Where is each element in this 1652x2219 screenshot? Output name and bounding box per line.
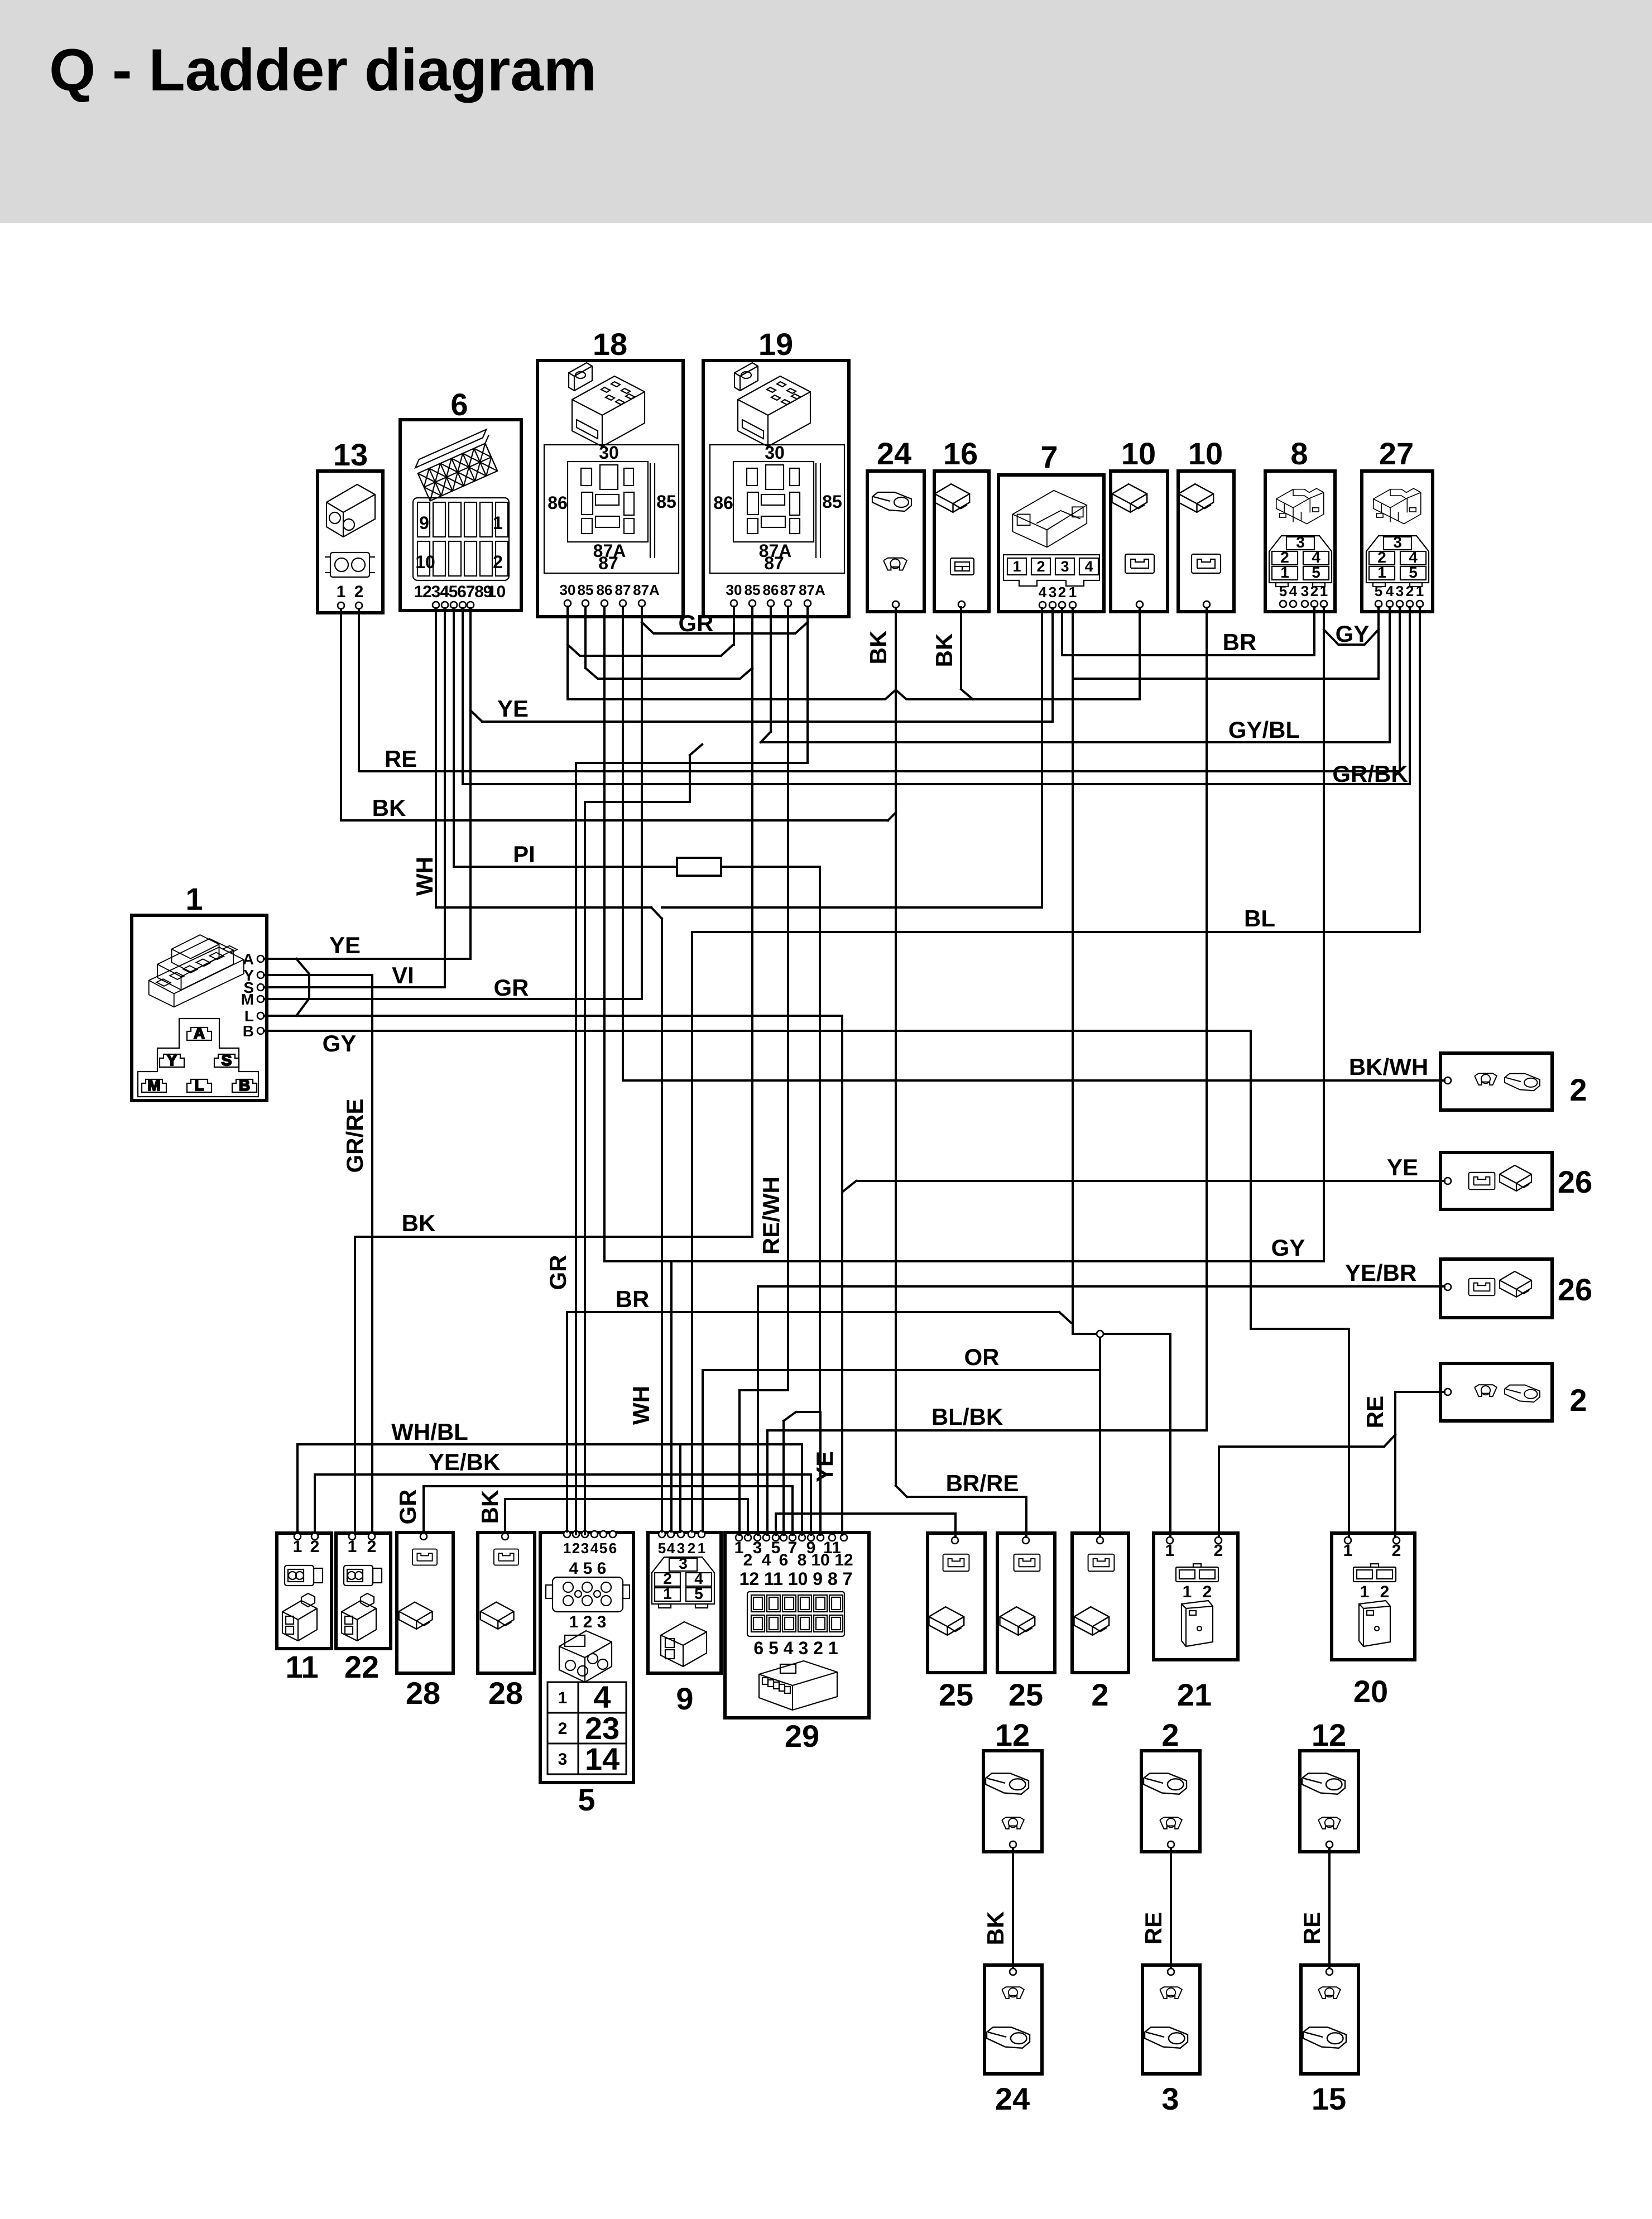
svg-text:GR/RE: GR/RE: [342, 1098, 368, 1173]
wire YE from 6-7: [469, 608, 472, 959]
svg-text:RE: RE: [1299, 1912, 1325, 1944]
wire BL/BK from 10 second: [1206, 608, 1208, 1430]
wire BK/WH horizontal: [623, 1079, 1444, 1082]
svg-text:GR: GR: [679, 610, 714, 636]
svg-text:4: 4: [1039, 584, 1047, 601]
svg-text:4: 4: [762, 1551, 771, 1569]
wire BK to 28 second: [504, 1499, 506, 1533]
svg-text:A: A: [194, 1025, 205, 1042]
svg-text:4: 4: [1386, 583, 1394, 599]
wire PI to 29-6: [782, 1421, 785, 1535]
svg-text:7: 7: [788, 1539, 798, 1557]
label YE: [497, 695, 529, 722]
svg-text:YE/BK: YE/BK: [429, 1449, 500, 1475]
terminal box 12 (chain): [983, 1717, 1042, 1852]
label BL/BK: [931, 1404, 1003, 1430]
wire YE/BK to 29-9: [810, 1474, 812, 1535]
svg-text:12 11 10 9 8 7: 12 11 10 9 8 7: [739, 1569, 853, 1589]
svg-text:2: 2: [1569, 1382, 1587, 1418]
label YE/BK: [429, 1449, 500, 1475]
svg-text:1: 1: [348, 1538, 357, 1556]
title: [49, 36, 597, 103]
wire branch to 5-3: [585, 801, 690, 803]
svg-text:BK: BK: [372, 795, 406, 821]
svg-text:L: L: [194, 1077, 204, 1094]
connector box 26 (YE/BR): [1440, 1259, 1592, 1318]
label GR/BK: [1332, 761, 1408, 787]
svg-text:GR: GR: [395, 1490, 421, 1525]
svg-text:1: 1: [1165, 1541, 1175, 1560]
svg-text:7: 7: [466, 583, 476, 601]
wire from 18-85: [584, 607, 587, 668]
label YE (rotated): [811, 1451, 838, 1482]
svg-text:2: 2: [743, 1551, 753, 1569]
svg-text:87: 87: [615, 582, 631, 598]
wire from 18-30: [566, 607, 569, 699]
svg-text:1: 1: [563, 1540, 571, 1557]
svg-text:GY: GY: [323, 1030, 357, 1056]
svg-text:2: 2: [354, 583, 364, 601]
svg-text:3: 3: [1049, 584, 1056, 601]
connector box 10 (first): [1111, 436, 1168, 612]
connector box 29: [725, 1533, 869, 1754]
svg-text:4: 4: [667, 1540, 675, 1557]
label GY: [1336, 621, 1370, 647]
wire PI from 6-5: [453, 608, 455, 867]
wire BK to 22-1: [354, 1237, 356, 1533]
wire GY bracket: [1324, 630, 1379, 645]
wire BL horizontal: [692, 931, 1420, 933]
wire RE branch horizontal: [1219, 1445, 1384, 1448]
svg-text:3: 3: [1296, 534, 1305, 551]
wire YE horizontal: [482, 721, 1053, 723]
wire from 1-L vertical to 29-12: [841, 1016, 843, 1535]
svg-text:30: 30: [765, 443, 785, 463]
svg-text:12: 12: [834, 1551, 853, 1569]
wire link to 7-4: [662, 906, 1042, 909]
wire YE jog from L vertical: [842, 1181, 856, 1192]
svg-text:1: 1: [293, 1538, 302, 1556]
terminal box 24 (chain): [985, 1965, 1042, 2116]
svg-text:YE/BR: YE/BR: [1345, 1260, 1416, 1286]
svg-text:9: 9: [419, 513, 429, 533]
wire GR/RE vertical to 22-2: [371, 975, 373, 1531]
connector box 8: [1265, 436, 1335, 612]
svg-text:5: 5: [1375, 583, 1382, 599]
wire BR/RE jog: [896, 1486, 907, 1497]
wire YE branch diagonal: [470, 710, 482, 722]
wire WH/BL to 11-1: [296, 1444, 299, 1533]
connector box 1: [132, 881, 267, 1101]
wire RE from 13-2: [358, 609, 360, 771]
svg-text:5: 5: [1279, 583, 1287, 599]
wire RE from box 2: [1395, 1391, 1444, 1393]
svg-text:12: 12: [1312, 1717, 1346, 1752]
svg-text:RE: RE: [1140, 1912, 1166, 1944]
wire BK join from 16: [961, 689, 973, 699]
svg-text:5: 5: [1409, 564, 1418, 581]
label BK/WH: [1349, 1054, 1428, 1080]
wire RE to 27-3: [1399, 607, 1401, 771]
svg-text:A: A: [243, 950, 254, 968]
wire 7-1 to 27-5: [1073, 678, 1379, 680]
wire GR/BK horizontal: [463, 783, 1410, 785]
svg-text:BR: BR: [1223, 629, 1257, 655]
connector box 5 with pin table: [540, 1531, 633, 1817]
svg-text:GY: GY: [1271, 1235, 1305, 1261]
wire GR/BK to 27-2: [1409, 607, 1411, 784]
wire from 1-M: [264, 998, 642, 1000]
wire BR horizontal: [567, 1311, 1059, 1313]
svg-text:30: 30: [726, 582, 742, 598]
wire BK to 29-2: [747, 1499, 749, 1535]
wire BK from 16: [960, 607, 962, 689]
wire BR horizontal: [1062, 654, 1314, 656]
wire BL vertical to 9-2: [691, 932, 693, 1531]
wire BR from 7-2: [1061, 608, 1063, 655]
wire GY from 8-1: [1323, 607, 1325, 1261]
label BR: [616, 1286, 650, 1312]
wire 29-5 to 25: [776, 1512, 955, 1515]
terminal box 3 (chain): [1142, 1965, 1200, 2116]
wire to 25 first: [954, 1514, 957, 1537]
wire RE to 20-2: [1394, 1392, 1396, 1537]
label PI: [513, 841, 535, 867]
wire from 19-30: [733, 607, 735, 645]
svg-text:26: 26: [1558, 1272, 1592, 1307]
svg-text:3: 3: [431, 583, 441, 601]
connector box 28 (first): [397, 1533, 453, 1711]
svg-text:28: 28: [488, 1675, 523, 1711]
connector box 7: [998, 439, 1104, 612]
terminal box 2 (bottom row): [1072, 1533, 1128, 1712]
svg-text:1: 1: [1360, 1583, 1370, 1601]
label BR/RE: [946, 1470, 1019, 1496]
svg-text:13: 13: [333, 437, 368, 472]
junction dot: [1097, 1331, 1103, 1337]
svg-text:2: 2: [558, 1720, 568, 1738]
wire BR branch diagonal: [1059, 1312, 1071, 1323]
wire to bottom box 2: [1099, 1334, 1101, 1536]
svg-text:24: 24: [995, 2081, 1030, 2116]
wire BL to 27-1: [1419, 607, 1421, 932]
wire BK horizontal: [341, 819, 888, 822]
wire WH/BL horizontal: [297, 1443, 802, 1445]
wire 30 to 10 with crossover hops: [568, 690, 1140, 699]
svg-text:2: 2: [1161, 1717, 1179, 1752]
wire PI left part: [454, 866, 677, 868]
wire RE horizontal: [359, 770, 1400, 772]
label WH/BL: [391, 1419, 468, 1445]
label BK: [372, 795, 406, 821]
svg-text:GR: GR: [545, 1255, 571, 1290]
wire branch vertical: [689, 755, 691, 802]
label WH (rotated, near box 9): [628, 1386, 654, 1425]
svg-text:5: 5: [599, 1540, 607, 1557]
wire GY/BL from 19-86: [770, 607, 772, 732]
wire WH/BL to 29-8: [801, 1444, 803, 1535]
svg-text:87A: 87A: [633, 582, 660, 598]
wire GR from 18-87A: [641, 607, 643, 999]
svg-text:1: 1: [414, 583, 424, 601]
svg-text:87: 87: [780, 582, 796, 598]
wire BL/BK horizontal: [767, 1429, 1207, 1432]
wire VI from 6-4: [444, 608, 446, 987]
wire BK horizontal: [355, 1236, 752, 1238]
relay connector box 19: [703, 326, 849, 617]
svg-text:GR: GR: [494, 974, 529, 1001]
wire YE/BR to 29-3: [757, 1286, 759, 1535]
svg-text:WH: WH: [628, 1386, 654, 1425]
wire GY vertical: [1250, 1031, 1252, 1329]
svg-text:30: 30: [599, 443, 619, 463]
label GR (rotated, near box 5): [545, 1255, 571, 1290]
label YE: [329, 932, 361, 958]
wire RE/WH from 19-87: [787, 607, 789, 1390]
wire GR from 19-87A: [806, 607, 809, 763]
svg-text:VI: VI: [392, 962, 414, 988]
svg-text:2: 2: [1058, 584, 1066, 601]
svg-text:2: 2: [1091, 1677, 1108, 1712]
wire GY to 20-1: [1348, 1329, 1350, 1537]
label GY/BL: [1228, 717, 1300, 743]
svg-text:2: 2: [1214, 1541, 1223, 1560]
wire YE to 7-3: [1051, 608, 1054, 722]
terminal box 15 (chain): [1301, 1965, 1358, 2116]
svg-text:28: 28: [406, 1675, 440, 1711]
wire from 1-Y: [264, 974, 372, 976]
fuse on PI wire: [677, 858, 721, 876]
svg-text:85: 85: [656, 492, 676, 512]
svg-text:5: 5: [578, 1782, 595, 1817]
connector box 9: [648, 1531, 721, 1716]
label BK (rotated, from 16): [931, 633, 957, 667]
connector box 28 (second): [478, 1533, 535, 1711]
svg-text:3: 3: [679, 1555, 688, 1572]
svg-text:3: 3: [1393, 534, 1402, 551]
svg-text:14: 14: [585, 1741, 619, 1776]
label GR (rotated): [395, 1490, 421, 1525]
svg-text:6: 6: [779, 1551, 789, 1569]
wire GY branch to 9-4: [670, 1261, 673, 1531]
wire VI from 1-S: [264, 986, 445, 988]
svg-text:6: 6: [450, 387, 468, 422]
svg-text:B: B: [243, 1022, 254, 1040]
wire GY from 1-B: [264, 1030, 1251, 1032]
wire GR bus 87A-87A: [642, 622, 808, 633]
svg-text:1: 1: [1377, 564, 1386, 581]
wire branch horizontal: [1073, 1333, 1170, 1335]
svg-text:3: 3: [677, 1540, 685, 1557]
wire BR/RE horizontal: [907, 1496, 1026, 1498]
connector box 11: [277, 1533, 332, 1684]
svg-text:2: 2: [422, 583, 432, 601]
svg-text:1: 1: [1012, 558, 1021, 575]
label YE: [1387, 1154, 1418, 1180]
wire YE from 1-A: [264, 958, 470, 960]
svg-text:M: M: [241, 991, 254, 1008]
svg-text:RE/WH: RE/WH: [758, 1176, 784, 1255]
wire at 29-5: [775, 1514, 777, 1535]
svg-text:87A: 87A: [799, 582, 825, 598]
wire BK from 19-85: [751, 607, 753, 1237]
terminal box 2 (BK/WH): [1440, 1053, 1587, 1110]
svg-text:GY/BL: GY/BL: [1228, 717, 1300, 743]
svg-text:2: 2: [1569, 1072, 1587, 1107]
wire BK: [982, 1848, 1013, 1968]
terminal box 24 (top row): [867, 436, 924, 612]
label GR: [494, 974, 529, 1001]
connector box 21: [1154, 1533, 1238, 1712]
svg-text:6: 6: [609, 1540, 617, 1557]
svg-text:WH/BL: WH/BL: [391, 1419, 468, 1445]
svg-text:30: 30: [560, 582, 576, 598]
label GY: [1271, 1235, 1305, 1261]
connector box 26 (YE): [1440, 1152, 1592, 1209]
svg-text:Y: Y: [167, 1051, 177, 1069]
svg-text:6: 6: [457, 583, 467, 601]
svg-text:BK: BK: [477, 1490, 503, 1524]
wire GR horizontal: [424, 1485, 793, 1487]
svg-text:4 5 6: 4 5 6: [569, 1559, 607, 1578]
svg-text:2: 2: [1203, 1583, 1212, 1601]
label VI: [392, 962, 414, 988]
label RE: [385, 746, 417, 772]
wire GR to 29-7: [791, 1486, 794, 1535]
svg-text:29: 29: [785, 1718, 819, 1754]
svg-text:4: 4: [1084, 558, 1093, 575]
wire BK horizontal: [505, 1498, 748, 1500]
svg-text:1: 1: [185, 881, 203, 916]
svg-text:3: 3: [1161, 2081, 1179, 2116]
svg-text:27: 27: [1379, 436, 1414, 471]
wire BR/RE to 25 second: [1025, 1497, 1027, 1537]
svg-text:1: 1: [1320, 583, 1328, 599]
svg-text:1: 1: [1343, 1541, 1353, 1560]
svg-text:BR/RE: BR/RE: [946, 1470, 1019, 1496]
svg-text:1: 1: [1069, 584, 1077, 601]
wire YE/BR horizontal: [758, 1285, 1444, 1288]
wire GY jog horizontal: [1251, 1328, 1349, 1330]
svg-text:4: 4: [440, 583, 449, 601]
svg-text:2: 2: [1406, 583, 1414, 599]
wire YE/BK to 11-2: [314, 1474, 316, 1533]
svg-text:M: M: [147, 1077, 160, 1094]
svg-text:18: 18: [593, 326, 627, 362]
wire branch to 9-3: [679, 1444, 681, 1532]
wire BK from 13-1: [340, 609, 342, 820]
svg-text:2: 2: [1380, 1583, 1390, 1601]
svg-text:5: 5: [1312, 564, 1320, 581]
wire RE branch jog: [1384, 1435, 1395, 1447]
svg-text:3: 3: [753, 1539, 762, 1557]
svg-text:5: 5: [694, 1585, 703, 1602]
svg-text:86: 86: [548, 493, 568, 513]
svg-text:23: 23: [585, 1711, 619, 1746]
wire WH horizontal: [436, 906, 651, 909]
svg-text:YE: YE: [811, 1451, 838, 1482]
svg-text:25: 25: [939, 1677, 973, 1712]
svg-text:1: 1: [337, 583, 346, 601]
svg-text:BL/BK: BL/BK: [931, 1404, 1003, 1430]
connector box 16: [934, 436, 989, 612]
svg-text:BK: BK: [865, 631, 891, 665]
wire bus 30-30: [568, 645, 733, 656]
svg-text:87: 87: [764, 553, 784, 573]
svg-text:16: 16: [943, 436, 978, 471]
svg-text:2: 2: [367, 1538, 377, 1556]
svg-text:BL: BL: [1244, 905, 1275, 931]
label GR: [679, 610, 714, 636]
svg-text:GR/BK: GR/BK: [1332, 761, 1408, 787]
terminal box 2 (chain): [1141, 1717, 1200, 1852]
wire BR to 5-1: [566, 1312, 568, 1531]
label BK: [402, 1210, 436, 1236]
svg-text:3: 3: [1301, 583, 1309, 599]
connector box 25 (second): [997, 1533, 1055, 1712]
connector box 6: [400, 387, 521, 611]
wire BK/WH from 18-87: [622, 607, 624, 1080]
svg-text:85: 85: [745, 582, 761, 598]
svg-text:10: 10: [415, 552, 435, 572]
wire BK diagonal join: [888, 813, 896, 820]
svg-text:S: S: [222, 1051, 232, 1069]
connector box 25 (first): [928, 1533, 985, 1712]
svg-text:1: 1: [1416, 583, 1424, 599]
wire OR horizontal: [703, 1369, 1099, 1371]
svg-text:4: 4: [1289, 583, 1298, 599]
svg-text:86: 86: [713, 493, 733, 513]
svg-text:9: 9: [676, 1681, 693, 1716]
svg-text:4: 4: [590, 1540, 599, 1557]
svg-text:1: 1: [493, 513, 503, 533]
connector box 13: [318, 437, 383, 613]
wire PI vertical: [819, 867, 821, 1412]
connector box 22: [336, 1533, 391, 1684]
svg-text:2: 2: [688, 1540, 695, 1557]
svg-text:1: 1: [698, 1540, 705, 1557]
wire RE: [1140, 1848, 1171, 1968]
svg-text:8: 8: [798, 1551, 807, 1569]
wire WH jog: [651, 907, 662, 919]
svg-text:26: 26: [1558, 1164, 1592, 1199]
svg-text:3: 3: [558, 1750, 568, 1769]
svg-text:85: 85: [578, 582, 594, 598]
wire WH from 6-3: [435, 608, 437, 907]
svg-text:PI: PI: [513, 841, 535, 867]
svg-text:21: 21: [1177, 1677, 1212, 1712]
harness brace at connector 1: [296, 959, 309, 1016]
svg-text:20: 20: [1353, 1674, 1388, 1709]
wire RE/WH to 29-1: [739, 1389, 788, 1391]
svg-text:22: 22: [344, 1649, 379, 1684]
wire YE horizontal: [856, 1180, 1444, 1182]
wire RE: [1299, 1848, 1329, 1968]
svg-text:10: 10: [487, 583, 506, 601]
svg-text:Q - Ladder diagram: Q - Ladder diagram: [49, 36, 597, 103]
wire from 1-L: [264, 1015, 842, 1017]
svg-text:11: 11: [285, 1649, 318, 1684]
svg-text:2: 2: [493, 552, 503, 572]
wire GR to 28 first: [422, 1486, 425, 1533]
svg-text:25: 25: [1009, 1677, 1043, 1712]
svg-text:OR: OR: [964, 1344, 1000, 1370]
svg-text:WH: WH: [411, 857, 438, 896]
svg-text:86: 86: [763, 582, 779, 598]
wire BK from 24 long vertical: [895, 608, 897, 1486]
svg-text:GY: GY: [1336, 621, 1370, 647]
svg-text:2: 2: [1036, 558, 1045, 575]
